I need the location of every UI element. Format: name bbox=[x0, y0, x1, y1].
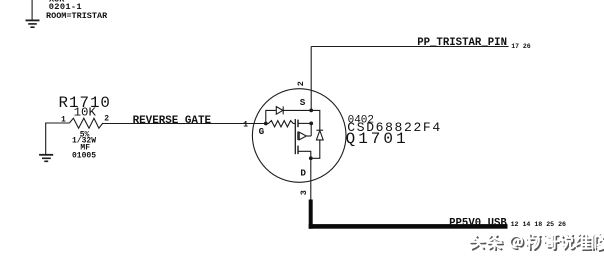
ground GND1 bbox=[26, 20, 40, 27]
svg-text:Q1701: Q1701 bbox=[346, 130, 409, 148]
wire thick PP5V0_USB vertical bbox=[309, 200, 313, 229]
node D junction dot bbox=[309, 156, 313, 160]
node source-body junction dot bbox=[309, 122, 313, 126]
svg-text:17 26: 17 26 bbox=[511, 43, 531, 50]
svg-text:ROOM=TRISTAR: ROOM=TRISTAR bbox=[46, 11, 108, 21]
wire ESD diode to S node bbox=[283, 109, 311, 111]
svg-text:10K: 10K bbox=[74, 106, 97, 120]
ground GND2 bbox=[39, 155, 53, 162]
svg-text:3: 3 bbox=[299, 190, 309, 195]
op enclosure circle Q1701 bbox=[252, 89, 346, 183]
svg-text:1: 1 bbox=[243, 120, 248, 129]
resistor R1710 body bbox=[69, 118, 103, 128]
svg-text:D: D bbox=[300, 168, 306, 179]
wire top-left vertical to ground bbox=[31, 0, 33, 20]
wire thick PP5V0_USB horizontal bbox=[309, 224, 508, 229]
node G junction bbox=[264, 122, 268, 126]
svg-text:2: 2 bbox=[296, 81, 306, 86]
transistor channel segment top bbox=[297, 120, 299, 128]
diode body (drain-source) bbox=[316, 130, 323, 140]
svg-text:REVERSE_GATE: REVERSE_GATE bbox=[133, 115, 212, 127]
wire REVERSE_GATE net bbox=[103, 123, 266, 125]
wire D pin 3 vertical bbox=[310, 158, 312, 200]
svg-text:PP5V0_USB: PP5V0_USB bbox=[449, 217, 507, 229]
svg-text:12 14 18 25 26: 12 14 18 25 26 bbox=[511, 221, 566, 228]
wire resistor left leg bbox=[46, 123, 70, 154]
wire source lead top bbox=[298, 122, 311, 124]
svg-text:1: 1 bbox=[61, 115, 66, 124]
wire body diode branch bottom bbox=[311, 140, 320, 158]
node S junction dot bbox=[309, 109, 313, 113]
svg-text:2: 2 bbox=[104, 115, 109, 124]
wire body diode branch top bbox=[311, 110, 320, 129]
wire S pin 2 vertical bbox=[310, 47, 312, 111]
wire PP_TRISTAR_PIN net bbox=[311, 46, 508, 48]
svg-text:S: S bbox=[300, 97, 306, 108]
watermark toutiao 头条 @杨哥说维修 bbox=[470, 234, 604, 251]
svg-text:G: G bbox=[259, 126, 265, 137]
transistor channel segment bottom bbox=[297, 146, 299, 155]
resistor internal gate bbox=[266, 121, 296, 127]
diode ESD (gate-source) bbox=[276, 106, 283, 114]
transistor Q1701 gate bar bbox=[294, 119, 296, 154]
svg-text:PP_TRISTAR_PIN: PP_TRISTAR_PIN bbox=[417, 37, 507, 49]
transistor channel segment middle bbox=[297, 132, 299, 141]
transistor body arrow bbox=[299, 123, 311, 139]
svg-text:01005: 01005 bbox=[72, 151, 96, 160]
wire gate to ESD diode bbox=[266, 110, 276, 123]
wire drain lead bottom bbox=[298, 151, 311, 158]
